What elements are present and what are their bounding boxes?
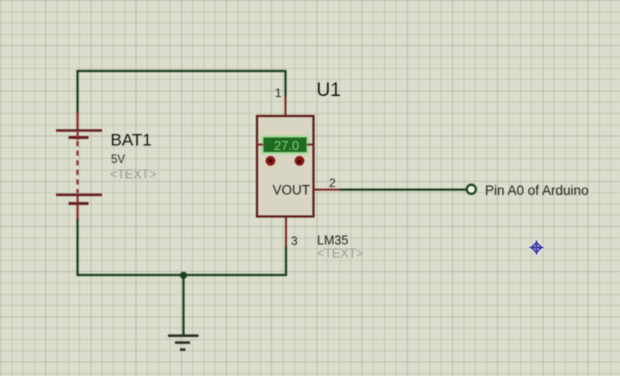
svg-text:27.0: 27.0 bbox=[274, 138, 299, 153]
sensor U1 (LM35) body bbox=[257, 116, 314, 217]
wire: right vertical down to U1 pin 1 bbox=[284, 70, 286, 96]
button down bbox=[266, 156, 276, 166]
wire: pin 3 vertical bbox=[285, 247, 287, 276]
wire: ground stem bbox=[182, 275, 184, 335]
svg-text:2: 2 bbox=[329, 176, 336, 190]
pin 1 of U1 bbox=[285, 96, 287, 116]
svg-text:BAT1: BAT1 bbox=[111, 131, 152, 150]
wire: pin 2 to terminal bbox=[340, 189, 467, 191]
wire: battery bottom vertical bbox=[76, 219, 78, 276]
svg-text:<TEXT>: <TEXT> bbox=[317, 247, 364, 261]
svg-text:Pin A0 of Arduino: Pin A0 of Arduino bbox=[485, 183, 589, 198]
pin 3 of U1 bbox=[285, 217, 287, 248]
ground bbox=[168, 336, 199, 350]
display screen 27.0 bbox=[264, 138, 307, 153]
battery BAT1 bbox=[56, 112, 102, 220]
svg-text:<TEXT>: <TEXT> bbox=[110, 168, 157, 182]
wire: battery top to U1 pin 1 (horizontal) bbox=[78, 70, 286, 72]
terminal: Pin A0 of Arduino bbox=[467, 185, 476, 194]
origin marker bbox=[529, 240, 545, 256]
display side tick right bbox=[307, 144, 313, 146]
svg-text:VOUT: VOUT bbox=[272, 183, 310, 198]
display side tick left bbox=[257, 144, 263, 146]
button up bbox=[295, 156, 305, 166]
svg-text:3: 3 bbox=[291, 234, 298, 248]
wire: bottom horizontal to pin 3 bbox=[78, 274, 287, 276]
svg-text:LM35: LM35 bbox=[317, 234, 348, 248]
pin 2 of U1 bbox=[315, 189, 341, 191]
svg-text:U1: U1 bbox=[317, 80, 341, 101]
junction node bbox=[180, 272, 187, 279]
wire: left vertical down to battery bbox=[76, 70, 78, 113]
svg-text:1: 1 bbox=[275, 86, 282, 100]
display bezel bbox=[262, 136, 309, 155]
svg-text:5V: 5V bbox=[111, 154, 125, 166]
